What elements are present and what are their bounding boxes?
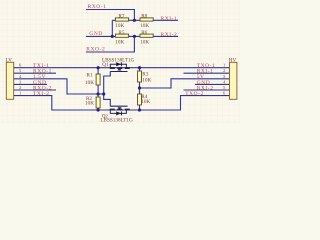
svg-text:2: 2 [19,85,21,90]
node RXO-1 (top section) [88,4,107,10]
resistor R4 [138,88,151,110]
connector LV (left, 6-pin) [6,58,14,100]
pin 4 (left) [19,74,22,79]
svg-text:RXI-1: RXI-1 [161,16,178,22]
bulk arrow [118,107,122,110]
node RXI-1 [161,16,178,22]
svg-text:LBSS138LT1G: LBSS138LT1G [100,118,133,124]
wire TXI-1 / TXO-1 main channel-1 line [14,67,230,69]
svg-text:RXO-2: RXO-2 [86,47,105,53]
wire 5V feed: row3 from right connector, down, rail to R3/R4 [140,79,230,88]
transistor Q1 LBSS138LT1G [102,57,135,71]
junction R1 top on TXI-1 line [97,66,100,69]
pin 3 (right) [223,74,226,79]
diode triangle [116,111,121,115]
channel bars [110,109,130,111]
svg-text:10K: 10K [115,23,124,29]
wire RXI-2 stub (right) [184,89,230,91]
node RXI-1 (right connector) [197,69,214,75]
connector HV (right, 6-pin) [229,57,237,99]
diode cathode bar [120,62,122,66]
junction node between R7 and R8 [133,19,136,22]
wire row B (R5/R6 line to RXI-2) [112,35,178,37]
wire RXO-2 stub (left) [14,89,56,91]
node TXO-1 [197,63,216,69]
svg-text:10K: 10K [140,23,149,29]
svg-text:RXI-2: RXI-2 [161,32,178,38]
node RXO-2 (top section) [86,47,105,53]
junction node between R5 and R6 [133,35,136,38]
pin 2 (left) [19,85,21,90]
resistor R6 [140,30,153,46]
node GND (right connector) [197,80,211,86]
junction 5V rail at R3/R4 column [138,86,141,89]
gate bar [110,105,127,107]
wire RXO-1 stub (left) [14,72,56,74]
resistor R3 [138,68,152,88]
junction GND vertical at row B [111,35,114,38]
junction 1.5V rail to gate vertical [102,92,105,95]
bulk arrow [118,68,122,71]
node GND (left connector) [33,80,47,86]
body diode line [110,110,126,113]
resistor R1 [85,68,100,94]
diode triangle [116,62,121,66]
resistor R2 [85,94,100,110]
svg-text:TXO-2: TXO-2 [185,91,204,97]
svg-text:10K: 10K [85,80,94,86]
node TXI-1 [33,63,50,69]
wire vertical GND-side link rowA to rowB [111,20,113,36]
node RXI-2 [161,32,178,38]
wire RXO-1 horizontal and drop to R7/R8 junction [86,10,134,21]
wire GND stub (left) [14,83,47,85]
svg-text:10K: 10K [140,39,149,45]
gate bar [110,71,127,73]
pin 4 (right) [223,79,226,84]
svg-text:10K: 10K [142,77,151,83]
pin 5 (right) [223,85,226,90]
node GND (top section) [89,31,103,37]
svg-text:1: 1 [223,63,225,68]
pin 3 (left) [19,79,22,84]
node 1.5V [33,74,46,80]
junction R3 top on TXO-1 line [138,66,141,69]
junction R1 bottom on 1.5V rail [97,92,100,95]
resistor R8 [140,14,153,30]
node 5V [197,74,205,80]
resistor R5 [115,30,128,46]
body diode line [110,64,126,67]
wire 1.5V feed: row3 right, down, rail to gates [14,79,104,94]
node RXO-1 (left connector) [33,69,52,75]
pin 5 (left) [19,68,22,73]
junction R4 bottom on TXO-2 line [138,108,141,111]
svg-text:R1: R1 [87,73,93,79]
svg-text:10K: 10K [115,39,124,45]
channel bars [110,67,130,69]
resistor R7 [115,14,128,30]
svg-text:10K: 10K [141,99,150,105]
wire RXO-2 horizontal and rise to R5/R6 junction [86,36,134,52]
wire GND to divider [86,35,112,37]
wire RXI-1 stub (right) [184,72,230,74]
node RXI-2 (right connector) [197,85,214,91]
wire TXI-2 down to channel-2 line [14,96,230,110]
svg-text:10K: 10K [85,101,94,107]
pin 1 (right) [223,63,225,68]
svg-text:Q1: Q1 [102,62,109,68]
node RXO-2 (left connector) [33,85,52,91]
node TXO-2 [185,91,204,97]
transistor Q2 LBSS138LT1G [100,106,133,123]
svg-text:1: 1 [19,91,21,96]
wire GND stub (right) [195,83,229,85]
svg-text:2: 2 [223,68,225,73]
pin 6 (right) [223,91,226,96]
wire row A (R7/R8 line to RXI-1) [112,19,178,21]
pin 2 (right) [223,68,225,73]
pin 1 (left) [19,91,21,96]
junction R2 bottom on TXI-2 line [97,108,100,111]
diode cathode bar [120,111,122,115]
wire gate rail vertical (1.5V to Q1/Q2 gates) [104,72,111,107]
pin 6 (left) [19,63,22,68]
node TXI-2 [33,91,50,97]
